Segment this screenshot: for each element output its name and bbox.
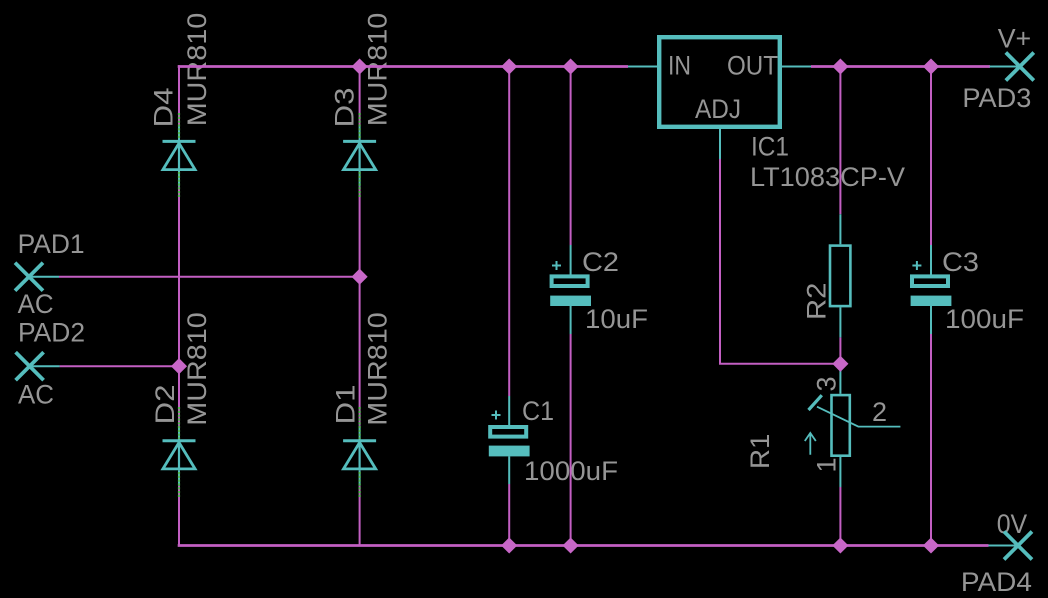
label C2 value 10uF (585, 304, 648, 334)
pin stub R1 pin3 (839, 364, 841, 394)
wire column C1 upper (508, 67, 510, 397)
potentiometer R1 arrow (805, 433, 816, 455)
diode D4 (163, 141, 196, 169)
label IC1 pin OUT (727, 50, 778, 80)
wire column C2 upper (570, 67, 572, 246)
label PAD3 name (962, 83, 1031, 113)
junction top rail at C2 (563, 59, 577, 73)
wire column R2 upper (839, 67, 841, 215)
junction top rail at C1 (502, 59, 516, 73)
pin stub PAD3 (990, 66, 1020, 68)
svg-text:MUR810: MUR810 (182, 13, 212, 127)
capacitor C3 (911, 261, 952, 306)
svg-text:PAD2: PAD2 (18, 318, 85, 348)
wire column C2 lower (570, 334, 572, 546)
label R1 pin 1 (812, 457, 842, 472)
label D3 designator (329, 88, 359, 128)
label D2 value MUR810 (182, 312, 212, 426)
svg-text:C3: C3 (942, 247, 979, 277)
pin stub D4 top (178, 126, 180, 141)
label IC1 pin IN (668, 50, 691, 80)
wire left column D4-D2 upper (178, 65, 180, 126)
svg-text:C1: C1 (522, 396, 554, 426)
wire bottom rail (178, 544, 989, 547)
wire PAD2 net (60, 365, 179, 367)
diode D2 (163, 441, 196, 469)
pin stub C1 bottom (508, 456, 510, 484)
pin stub IC1 OUT (780, 66, 811, 68)
pin stub IC1 IN (628, 66, 659, 68)
svg-text:PAD4: PAD4 (961, 567, 1032, 597)
pad PAD1 X (15, 263, 43, 291)
pin stub PAD1 (29, 276, 59, 278)
pin stub D2 top (178, 426, 180, 441)
svg-text:ADJ: ADJ (695, 94, 741, 124)
junction bottom rail at C2 (563, 538, 577, 552)
pin stub R2 top (839, 214, 841, 244)
pin stub C3 bottom (930, 306, 932, 334)
label C2 designator (582, 247, 619, 277)
wire top rail left segment (178, 65, 628, 68)
pin stub D1 top (359, 426, 361, 441)
label C3 designator (942, 247, 979, 277)
label D4 value MUR810 (182, 13, 212, 127)
label D1 value MUR810 (363, 312, 393, 426)
label D1 designator (331, 385, 361, 425)
junction bottom rail at R1 (833, 538, 847, 552)
wire left column D4-D2 middle (178, 186, 180, 425)
svg-text:0V: 0V (997, 509, 1027, 539)
potentiometer R1 wiper diagonal to pin 2 (817, 407, 900, 427)
wire left column D2 lower (178, 486, 180, 547)
resistor R2 (830, 246, 850, 307)
label 0V net (997, 509, 1027, 539)
wire R1 pin1 to bottom rail (839, 487, 841, 546)
svg-text:IC1: IC1 (751, 132, 789, 162)
label PAD2 net AC (18, 380, 54, 410)
label D2 designator (150, 385, 180, 425)
svg-text:1: 1 (812, 457, 842, 472)
junction top rail at R2 (833, 59, 847, 73)
label R1 pin 2 (872, 397, 887, 427)
diode D3 (343, 141, 376, 169)
pin stub PAD4 (989, 545, 1019, 547)
capacitor C2 (550, 261, 591, 306)
wire column D3-D1 middle (359, 186, 361, 425)
junction bottom rail at C1 (502, 538, 516, 552)
junction PAD1 net at D3 column (352, 269, 366, 283)
label IC1 pin ADJ (695, 94, 741, 124)
svg-text:C2: C2 (582, 247, 619, 277)
pin stub D2 bottom (178, 470, 180, 486)
pin stub R1 pin1 (839, 457, 841, 487)
pin stub C3 top (930, 245, 932, 276)
label PAD2 name (18, 318, 85, 348)
svg-text:MUR810: MUR810 (363, 312, 393, 426)
svg-text:D1: D1 (331, 385, 361, 425)
svg-text:V+: V+ (998, 24, 1031, 54)
label IC1 designator (751, 132, 789, 162)
svg-text:MUR810: MUR810 (182, 312, 212, 426)
label IC1 value LT1083CP-V (750, 162, 905, 192)
pin stub C2 top (570, 245, 572, 276)
pin stub R2 bottom (839, 307, 841, 337)
pin stub C2 bottom (570, 306, 572, 334)
label PAD4 name (961, 567, 1032, 597)
wire column C3 lower (930, 334, 932, 546)
svg-text:D4: D4 (149, 88, 179, 128)
junction ADJ net at R2-R1 (833, 357, 847, 371)
label D3 value MUR810 (363, 13, 393, 127)
pin stub C1 top (508, 396, 510, 427)
junction top rail at D3 (352, 59, 366, 73)
pin stub IC1 ADJ (719, 127, 721, 159)
pin text marks D1 (359, 407, 361, 497)
label R1 designator (745, 434, 775, 469)
pin text marks D4 (178, 113, 180, 198)
pad PAD2 X (16, 352, 44, 380)
pin stub D3 bottom (359, 171, 361, 187)
svg-text:3: 3 (812, 376, 842, 391)
wire column D3-D1 upper (359, 67, 361, 127)
pad PAD3 X (1006, 53, 1034, 81)
IC IC1 LT1083CP-V regulator box (659, 37, 780, 127)
svg-text:OUT: OUT (727, 50, 778, 80)
capacitor C1 (489, 411, 530, 457)
label V+ net (998, 24, 1031, 54)
wire column C1 lower (508, 484, 510, 546)
potentiometer R1 wiper bar (809, 395, 822, 410)
pin text marks D2 (178, 407, 180, 497)
svg-text:MUR810: MUR810 (363, 13, 393, 127)
label R2 designator (802, 283, 832, 321)
svg-text:PAD3: PAD3 (962, 83, 1031, 113)
label C1 designator (522, 396, 554, 426)
junction bottom rail at C3 (924, 538, 938, 552)
wire column C3 upper (930, 67, 932, 246)
svg-text:100uF: 100uF (945, 304, 1024, 334)
svg-text:LT1083CP-V: LT1083CP-V (750, 162, 905, 192)
svg-text:AC: AC (18, 289, 54, 319)
diode D1 (343, 441, 376, 469)
pin stub D1 bottom (359, 470, 361, 486)
pin stub D4 bottom (178, 171, 180, 187)
svg-text:D2: D2 (150, 385, 180, 425)
pin stub D3 top (359, 126, 361, 141)
junction PAD2 net at D2 column (172, 359, 186, 373)
pin text marks D3 (359, 113, 361, 198)
wire column D1 lower (359, 486, 361, 545)
wire column R2 lower (839, 337, 841, 363)
junction top rail at C3 (924, 59, 938, 73)
svg-text:IN: IN (668, 50, 691, 80)
label PAD1 net AC (18, 289, 54, 319)
potentiometer R1 body (832, 395, 850, 456)
wire top rail right segment (811, 65, 990, 68)
svg-text:PAD1: PAD1 (18, 229, 85, 259)
svg-text:10uF: 10uF (585, 304, 648, 334)
svg-text:R1: R1 (745, 434, 775, 469)
label R1 pin 3 (812, 376, 842, 391)
label C1 value 1000uF (524, 456, 618, 486)
label C3 value 100uF (945, 304, 1024, 334)
wire ADJ net (720, 159, 834, 364)
label D4 designator (149, 88, 179, 128)
svg-text:D3: D3 (329, 88, 359, 128)
pin stub PAD2 (30, 365, 60, 367)
pad PAD4 X (1004, 532, 1032, 560)
svg-text:R2: R2 (802, 283, 832, 321)
svg-text:2: 2 (872, 397, 887, 427)
svg-text:AC: AC (18, 380, 54, 410)
wire PAD1 net (59, 276, 360, 278)
label PAD1 name (18, 229, 85, 259)
